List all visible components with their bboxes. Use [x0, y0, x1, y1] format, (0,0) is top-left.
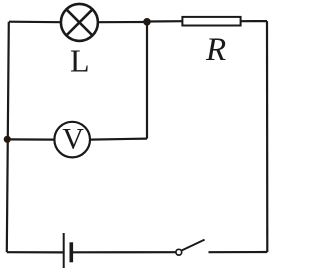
wire riser up to junction A	[146, 22, 148, 139]
wire top-left to lamp	[9, 21, 61, 24]
wire junction B to voltmeter	[7, 138, 54, 140]
wire bottom-left to battery	[7, 251, 63, 253]
resistor R	[182, 17, 240, 26]
node B (junction dot, left)	[4, 136, 11, 143]
battery (cell): short thick plate	[70, 242, 74, 262]
wire resistor to top-right corner	[241, 20, 267, 22]
wire switch to bottom-right corner	[209, 251, 268, 253]
svg-text:L: L	[70, 43, 90, 79]
wire left side vertical	[7, 22, 9, 252]
switch S: pivot circle	[176, 249, 182, 255]
wire voltmeter to riser	[90, 139, 147, 140]
wire right side vertical	[266, 21, 268, 252]
switch S: lever arm	[181, 240, 204, 251]
svg-text:V: V	[62, 123, 84, 156]
wire lamp to junction A	[98, 21, 147, 23]
battery (cell): long plate	[63, 233, 65, 268]
wire battery to switch	[73, 251, 176, 253]
wire junction A to resistor	[147, 20, 183, 22]
node A (junction dot, top)	[143, 18, 151, 26]
label L	[70, 43, 90, 79]
svg-text:R: R	[205, 32, 226, 68]
label R	[205, 32, 226, 68]
voltmeter V	[54, 122, 90, 158]
lamp L (circle with X)	[61, 4, 98, 41]
